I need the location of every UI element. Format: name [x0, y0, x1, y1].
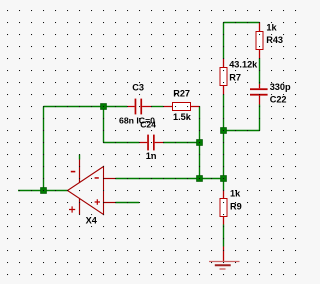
wire R43 to C22 — [259, 59, 261, 85]
op-amp X4 minus mark at base — [95, 177, 99, 179]
wire vertical x103 down to C24 row — [103, 107, 105, 143]
wire inverting input row — [116, 178, 224, 180]
op-amp X4 minus mark top — [71, 171, 76, 173]
junction at 223.5,130.5 — [221, 128, 227, 134]
resistor R9 — [220, 191, 227, 225]
wire output row left — [18, 190, 68, 192]
wire C24 row left — [104, 142, 140, 144]
resistor R43 — [256, 23, 263, 59]
wire C24 row right — [163, 142, 200, 144]
junction at 199.5,178.5 — [197, 176, 203, 182]
op-amp X4 — [68, 160, 116, 215]
wire C22 branch horizontal — [224, 130, 260, 132]
capacitor C3 — [127, 99, 151, 115]
wire top pin stub — [79, 155, 81, 160]
junction at 103.5,106.5 — [101, 104, 107, 110]
wire C3 to R27 — [151, 106, 163, 108]
wire noninverting input stub — [116, 202, 140, 204]
junction at 43.5,190.5 — [41, 188, 47, 194]
wire R9 to ground — [223, 225, 225, 247]
wire top row to C3 — [44, 106, 128, 108]
resistor R7 — [220, 59, 227, 95]
wire C22 down — [259, 105, 261, 131]
ground — [209, 247, 240, 270]
wire left vertical — [43, 107, 45, 191]
junction at 223.5,178.5 — [221, 176, 227, 182]
capacitor C24 — [139, 135, 163, 151]
wire R7 bottom to junction row — [223, 95, 225, 191]
op-amp X4 plus mark bottom — [69, 206, 75, 212]
junction at 199.5,142.5 — [197, 140, 203, 146]
wire top rail — [224, 22, 260, 24]
wire down to R7 — [223, 23, 225, 60]
op-amp X4 plus mark at base — [95, 199, 100, 204]
capacitor C22 — [250, 84, 268, 105]
resistor R27 — [163, 103, 200, 111]
wire vertical x199 — [199, 107, 201, 179]
